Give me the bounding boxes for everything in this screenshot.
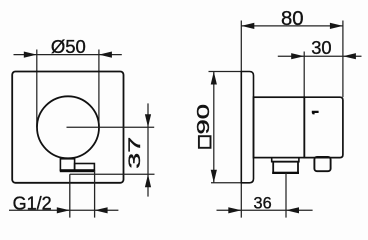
dim square90 arrow bottom [211,170,217,183]
dim 37 arrow top [145,114,151,127]
handle outline [304,97,343,157]
dim square90 top extension [209,71,242,73]
dim Ø50 dimension line [14,54,122,56]
dim G1/2 arrow right [95,207,108,213]
dim Ø50 extension line right [98,50,100,128]
handle circle [37,96,99,158]
diverter stub under handle [314,157,330,171]
nipple top line (37 lower extension) [70,173,155,175]
dim 37 dimension line [147,103,149,196]
outlet nipple thick bottom [272,172,299,174]
wall line / 80-36 left extension [240,21,242,218]
centre line through circle to 37 dim [67,126,155,128]
outlet block wide (right) [75,164,95,171]
dim 37 arrow bottom [145,174,151,187]
outlet collar under body [272,158,299,162]
dim 36 dimension line [217,209,313,211]
dim square90 label square symbol [199,136,211,148]
dim 80 arrow right [330,23,343,29]
dim 30 arrow right [343,53,356,59]
dim 30 left extension [303,52,305,98]
valve body outline [254,97,305,157]
dim 80 dimension line [241,25,343,27]
outlet nipple under body [273,162,298,173]
dim Ø50 arrow right [99,52,112,58]
dim G1/2 arrow left [57,207,70,213]
dim square90 arrow top [211,72,217,85]
nipple right edge / G1/2 extension right [94,171,96,218]
svg-text:37: 37 [125,137,144,169]
nipple left edge / G1/2 extension left [69,174,71,217]
svg-text:80: 80 [281,8,304,30]
svg-text:Ø50: Ø50 [51,36,86,57]
plate side outline [241,72,253,183]
outlet block small (left) [60,159,74,171]
dim G1/2 dimension line [9,209,118,211]
dim 30 arrow left [291,53,304,59]
plate front outline [12,72,123,183]
svg-text:90: 90 [193,104,213,135]
dim square90 dimension line [213,72,215,183]
dim 30 dimension line [278,55,362,57]
dim Ø50 arrow left [24,52,37,58]
outlet seal thick bar [60,169,95,172]
dim square90 bottom extension [211,182,241,184]
svg-text:G1/2: G1/2 [13,194,52,214]
svg-text:36: 36 [254,195,272,213]
dim 80 arrow left [241,23,254,29]
svg-text:30: 30 [311,37,331,58]
36 right extension / outlet centre line [285,173,287,218]
handle indicator mark [312,111,319,115]
dim 36 arrow right [286,207,299,213]
dim 80/30 right extension [342,21,344,98]
dim 36 arrow left [228,207,241,213]
dim Ø50 extension line left [36,50,38,128]
